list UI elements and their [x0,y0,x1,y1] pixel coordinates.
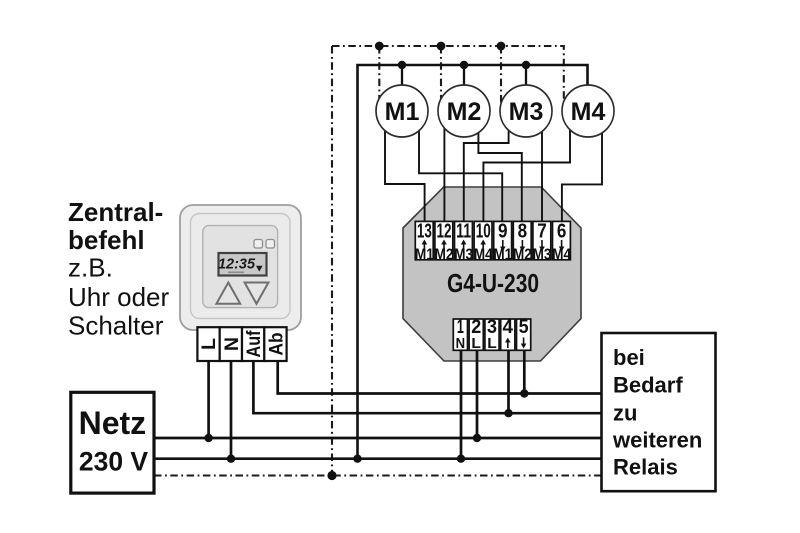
wire M1 down to terminal 9 [419,118,502,223]
wire N line [154,457,602,460]
svg-text:Relais: Relais [613,455,678,480]
svg-text:M3: M3 [509,98,544,126]
terminal 4 up-arrow labels [503,317,514,348]
svg-text:11: 11 [456,221,471,243]
terminal 3 L labels [487,317,497,352]
wire N bus top with left drop [358,65,588,459]
svg-text:5: 5 [519,317,529,338]
wire L line [154,437,602,440]
wire stub M2 to N bus [463,65,465,90]
wire relay terminal 1 N drop [460,350,463,459]
svg-text:N: N [456,335,466,352]
junction dots dash-dot bus [375,42,506,51]
timer terminal Ab [264,327,287,361]
further relays box [602,333,716,491]
wire M4 up to terminal 10 [483,118,570,223]
terminal 10 labels [474,221,493,264]
dash-dot bus top (optional relay line) [332,46,564,101]
terminal 12 labels [435,221,454,264]
svg-text:Zentral-: Zentral- [68,197,163,227]
timer switch wall plate [180,205,301,330]
terminal 9 labels [493,221,512,264]
svg-text:L: L [471,335,481,352]
wire relay terminal 2 L drop [476,350,479,438]
svg-text:N: N [222,337,243,351]
svg-text:8: 8 [518,221,528,243]
wire M3 down to terminal 7 [541,118,543,223]
terminal 11 labels [454,221,473,264]
svg-text:13: 13 [417,221,432,243]
svg-text:z.B.: z.B. [68,253,113,283]
wire M2 up to terminal 12 [443,118,445,223]
svg-text:12:35: 12:35 [218,257,256,273]
timer buttons [254,240,275,249]
svg-text:L: L [199,338,220,350]
svg-text:weiteren: weiteren [612,428,702,453]
svg-text:Schalter: Schalter [68,311,164,341]
motor M3 [500,85,552,137]
motor M1 [376,85,428,137]
svg-text:G4-U-230: G4-U-230 [447,268,539,298]
svg-text:10: 10 [476,221,491,243]
wire Ab line [278,361,602,394]
terminal 7 labels [533,221,552,264]
dash-dot stub to M2 [440,46,442,103]
terminal 1 N labels [456,317,466,352]
svg-text:6: 6 [557,221,567,243]
svg-text:bei: bei [613,345,645,370]
junction dots N bus top [398,61,530,69]
svg-text:Ab: Ab [266,333,287,356]
wire timer N drop [230,361,233,459]
svg-text:zu: zu [613,401,637,426]
svg-text:Bedarf: Bedarf [613,373,683,398]
motor M4 [562,85,614,137]
wire M1 up to terminal 13 [385,118,425,223]
timer terminal N [220,327,243,361]
label Zentralbefehl text block [68,197,169,341]
terminal 2 L labels [471,317,481,352]
relay terminal row bottom (1..5) [453,319,530,350]
svg-text:Netz: Netz [79,405,147,441]
wire timer L drop [207,361,210,438]
svg-text:M1: M1 [385,98,420,126]
svg-text:Auf: Auf [244,330,265,358]
Netz 230V source box [71,392,154,493]
dash-dot vertical left (to further relays) [331,46,333,476]
svg-text:4: 4 [503,317,514,338]
timer LCD display [218,253,267,276]
svg-text:M4: M4 [571,98,606,126]
dash-dot stub to M3 [500,46,502,106]
wire Auf line [253,361,601,413]
wire relay terminal 5 drop to Ab line [523,350,526,394]
dash-dot stub to M1 [378,46,380,103]
relay body G4-U-230 octagon [403,187,581,361]
svg-text:Uhr oder: Uhr oder [68,282,169,312]
svg-text:230 V: 230 V [79,447,149,477]
timer up button triangle [216,283,240,304]
svg-text:12: 12 [437,221,452,243]
terminal 5 down-arrow labels [519,317,529,349]
timer down button triangle [245,283,269,304]
junction dots bottom wiring [204,389,528,480]
wire stub M3 to N bus [525,65,527,90]
timer terminal L [197,327,220,361]
svg-text:befehl: befehl [68,225,145,255]
wire stub M1 to N bus [401,65,403,90]
svg-text:7: 7 [537,221,547,243]
timer terminal Auf [242,327,265,361]
wire relay terminal 4 drop to Auf line [507,350,510,413]
svg-text:L: L [487,335,497,352]
terminal 8 labels [513,221,532,264]
relay terminal row top (13..6) [415,221,570,259]
motor M2 [438,85,490,137]
wire M2 down to terminal 8 [478,118,521,223]
terminal 6 labels [552,221,571,264]
dash-dot bus bottom (to further relays) [154,474,602,476]
wire M4 down to terminal 6 [562,118,602,223]
svg-text:9: 9 [498,221,508,243]
terminal 13 labels [415,221,434,264]
svg-text:M2: M2 [447,98,482,126]
wire M3 up to terminal 11 [464,118,509,223]
